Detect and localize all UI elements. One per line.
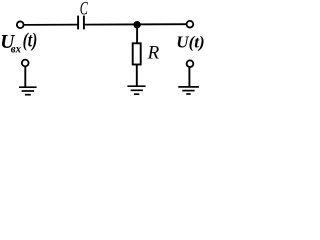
wire capacitor to output (85, 23, 186, 25)
wire junction down to resistor (136, 25, 138, 43)
svg-text:(t): (t) (23, 29, 38, 51)
svg-text:R: R (147, 43, 160, 64)
left earth bar1 (19, 86, 37, 88)
left earth bar2 (22, 90, 34, 92)
right earth bar2 (182, 90, 194, 92)
ground middle bar3 (134, 93, 139, 95)
left earth stem (24, 66, 26, 87)
svg-text:вх: вх (11, 43, 21, 56)
svg-text:C: C (80, 0, 88, 19)
capacitor C1 left plate (77, 16, 79, 30)
ground middle bar1 (127, 85, 145, 87)
right earth bar3 (186, 93, 190, 95)
left earth terminal circle (22, 60, 29, 67)
left earth bar3 (25, 94, 31, 96)
right earth bar1 (178, 86, 199, 88)
right earth stem (188, 67, 190, 87)
svg-text:U(t): U(t) (176, 32, 204, 51)
input terminal circle (17, 21, 24, 28)
output terminal circle (187, 21, 194, 28)
wire resistor to ground (136, 65, 138, 86)
resistor R1 body (133, 43, 141, 64)
wire input to capacitor (24, 24, 77, 26)
ground middle bar2 (131, 89, 143, 91)
junction node dot (133, 21, 140, 28)
capacitor C1 right plate (83, 16, 85, 30)
right earth terminal circle (187, 60, 194, 67)
